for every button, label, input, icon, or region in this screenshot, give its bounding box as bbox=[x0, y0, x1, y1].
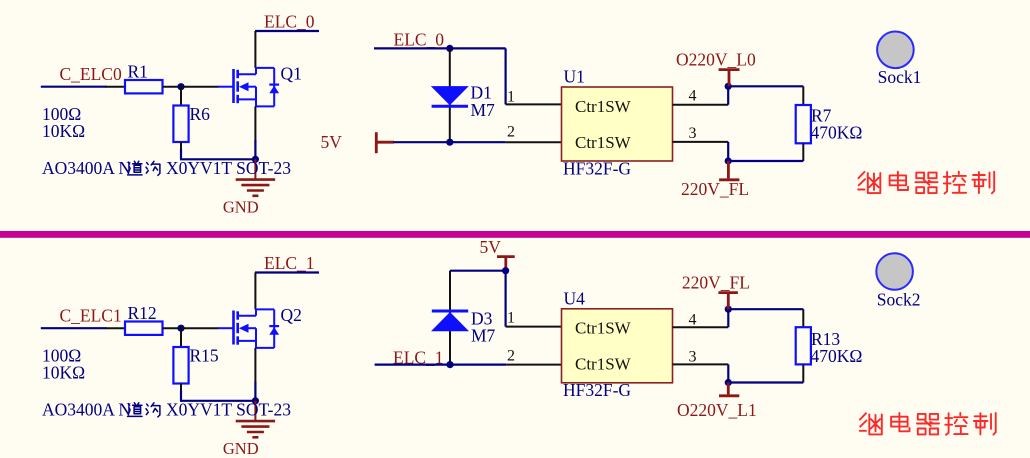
svg-text:5V: 5V bbox=[480, 237, 502, 257]
svg-text:HF32F-G: HF32F-G bbox=[563, 158, 631, 178]
junction source node bbox=[252, 156, 259, 163]
pin number 1 bbox=[507, 310, 515, 327]
pin R13.1 bbox=[802, 309, 804, 327]
wire source net bbox=[180, 391, 182, 401]
svg-text:Ctr1SW: Ctr1SW bbox=[575, 355, 632, 374]
diode D3 bbox=[431, 308, 496, 345]
resistor R12 bbox=[125, 303, 163, 335]
svg-text:4: 4 bbox=[689, 88, 697, 105]
svg-text:O220V_L1: O220V_L1 bbox=[677, 400, 757, 420]
diode D1 bbox=[431, 83, 495, 120]
net label ELC_0 bbox=[264, 12, 315, 32]
wire pin4 to R13 top bbox=[727, 309, 729, 327]
pin number 2 bbox=[507, 348, 515, 365]
wire ELC_1 to pin2 bbox=[375, 364, 507, 366]
power port 220V_FL bbox=[681, 161, 749, 199]
svg-text:Sock2: Sock2 bbox=[877, 289, 921, 309]
pin U4.4 bbox=[673, 326, 729, 328]
label Q1 bbox=[281, 64, 302, 84]
pin U1.4 bbox=[673, 104, 729, 106]
junction gate node bbox=[177, 325, 184, 332]
power port 220V_FL (bottom) bbox=[682, 272, 750, 309]
pin number 3 bbox=[689, 348, 697, 365]
svg-text:220V_FL: 220V_FL bbox=[681, 179, 749, 199]
svg-text:2: 2 bbox=[507, 348, 515, 365]
wire net ELC_1 bbox=[255, 271, 319, 273]
resistor R15 bbox=[173, 346, 219, 384]
pin U4.1 bbox=[506, 326, 562, 328]
pin R6.1 bbox=[180, 87, 182, 106]
note text AO3400A N-channel (CJK drawn) bbox=[42, 158, 291, 178]
junction D1 cathode bbox=[446, 139, 453, 146]
wire 5V to D3 bbox=[450, 270, 506, 272]
svg-text:Q1: Q1 bbox=[281, 64, 302, 84]
svg-text:Q2: Q2 bbox=[281, 305, 302, 325]
pin gate Q1 bbox=[181, 86, 219, 88]
svg-text:ELC_0: ELC_0 bbox=[264, 12, 315, 32]
svg-text:GND: GND bbox=[223, 197, 259, 216]
svg-text:AO3400A N: AO3400A N bbox=[42, 158, 131, 178]
svg-text:R6: R6 bbox=[190, 104, 211, 124]
svg-text:X0YV1T SOT-23: X0YV1T SOT-23 bbox=[166, 400, 291, 420]
svg-text:3: 3 bbox=[689, 348, 697, 365]
junction 5V corner bbox=[502, 267, 509, 274]
separator bar bbox=[0, 231, 1030, 238]
svg-text:ELC_1: ELC_1 bbox=[264, 253, 315, 273]
socket Sock1 bbox=[877, 32, 921, 88]
pin number 2 bbox=[507, 124, 515, 141]
wire R13 bottom to pin3 bbox=[728, 381, 803, 383]
pin R12.1 bbox=[106, 327, 126, 329]
svg-text:R1: R1 bbox=[128, 62, 148, 82]
relay U4 bbox=[562, 288, 673, 400]
pin number 1 bbox=[507, 88, 515, 105]
ground bbox=[223, 401, 275, 458]
pin R7.2 bbox=[802, 143, 804, 161]
wire net ELC_0 bbox=[255, 30, 319, 32]
pin R12.2 bbox=[163, 327, 182, 329]
resistor R7 bbox=[796, 105, 863, 143]
pin R15.2 bbox=[180, 384, 182, 392]
pin R6.2 bbox=[180, 142, 182, 150]
pin number 4 bbox=[689, 312, 697, 329]
pin number 4 bbox=[689, 88, 697, 105]
svg-text:X0YV1T SOT-23: X0YV1T SOT-23 bbox=[166, 158, 291, 178]
resistor R6 bbox=[173, 104, 210, 142]
resistor R1 bbox=[125, 62, 163, 94]
pin R7.1 bbox=[802, 86, 804, 105]
value text 100ohm bbox=[42, 346, 81, 366]
title text 继电器控制 (drawn strokes) bbox=[858, 172, 994, 194]
transistor Q2 bbox=[218, 309, 279, 348]
svg-text:470KΩ: 470KΩ bbox=[811, 123, 863, 143]
wire net C_ELC1 bbox=[41, 327, 107, 329]
svg-text:GND: GND bbox=[223, 439, 259, 458]
label Q2 bbox=[281, 305, 302, 325]
pin R15.1 bbox=[180, 328, 182, 347]
wire source to gnd node bbox=[254, 140, 256, 159]
net label C_ELC1 bbox=[60, 306, 122, 326]
pin U4.3 bbox=[673, 363, 729, 365]
svg-text:U1: U1 bbox=[564, 67, 585, 87]
junction D3 anode bbox=[446, 361, 453, 368]
svg-text:Sock1: Sock1 bbox=[878, 67, 922, 87]
socket Sock2 bbox=[876, 253, 920, 309]
pin U1.3 bbox=[673, 141, 729, 143]
svg-text:470KΩ: 470KΩ bbox=[811, 346, 863, 366]
svg-text:ELC_0: ELC_0 bbox=[394, 29, 445, 49]
svg-text:C_ELC0: C_ELC0 bbox=[60, 64, 122, 84]
svg-text:1: 1 bbox=[507, 310, 515, 327]
svg-text:10KΩ: 10KΩ bbox=[42, 363, 85, 383]
net label ELC_1 (relay side) bbox=[393, 347, 444, 367]
junction O220V_L0 bbox=[725, 83, 732, 90]
resistor R13 bbox=[796, 327, 863, 366]
svg-text:O220V_L0: O220V_L0 bbox=[676, 49, 756, 69]
junction 220V_FL bottom bbox=[725, 306, 732, 313]
pin gate Q2 bbox=[181, 327, 219, 329]
junction 220V_FL bbox=[725, 157, 732, 164]
wire source net bbox=[180, 149, 182, 159]
pin drain Q2 bbox=[254, 273, 256, 310]
pin U1.1 bbox=[506, 103, 562, 105]
svg-text:R15: R15 bbox=[190, 346, 219, 366]
pin U1.2 bbox=[505, 141, 561, 143]
relay U1 bbox=[562, 67, 673, 179]
svg-text:M7: M7 bbox=[471, 100, 496, 120]
wire net C_ELC0 bbox=[41, 86, 107, 88]
ground bbox=[223, 159, 275, 216]
svg-text:C_ELC1: C_ELC1 bbox=[60, 306, 122, 326]
wire ELC_0 to pin1 corner bbox=[374, 47, 506, 49]
svg-text:R12: R12 bbox=[128, 303, 157, 323]
net label ELC_0 (relay side) bbox=[394, 29, 445, 49]
svg-text:M7: M7 bbox=[471, 326, 496, 346]
power port 5V (bottom) bbox=[480, 237, 515, 271]
svg-text:5V: 5V bbox=[321, 132, 343, 152]
value text 10Kohm bbox=[42, 121, 85, 141]
pin U4.2 bbox=[506, 364, 561, 366]
pins D3 vertical bbox=[449, 271, 451, 365]
power port O220V_L0 bbox=[676, 49, 756, 86]
pin source Q2 bbox=[254, 348, 256, 383]
power port 5V bbox=[321, 132, 395, 153]
wire pin4 to R7 top bbox=[727, 86, 729, 104]
svg-text:4: 4 bbox=[689, 312, 697, 329]
transistor Q1 bbox=[218, 68, 279, 107]
wire R7 bottom to pin3 bbox=[728, 160, 803, 162]
svg-text:220V_FL: 220V_FL bbox=[682, 272, 750, 292]
junction D1 anode bbox=[446, 45, 453, 52]
title text 继电器控制 (drawn strokes) bbox=[860, 413, 996, 435]
svg-text:10KΩ: 10KΩ bbox=[42, 121, 85, 141]
pin source Q1 bbox=[254, 106, 256, 141]
value text 100ohm bbox=[42, 104, 81, 124]
svg-text:3: 3 bbox=[689, 125, 697, 142]
net label ELC_1 bbox=[264, 253, 315, 273]
wire source to gnd node bbox=[254, 382, 256, 401]
svg-text:HF32F-G: HF32F-G bbox=[563, 380, 631, 400]
svg-text:Ctr1SW: Ctr1SW bbox=[575, 133, 632, 152]
pins D1 vertical bbox=[449, 48, 451, 142]
wire 5V corner to pin1 bbox=[505, 271, 507, 327]
wire 5V to pin2 bbox=[394, 141, 506, 143]
pin R13.2 bbox=[802, 364, 804, 382]
svg-text:Ctr1SW: Ctr1SW bbox=[575, 319, 632, 338]
pin R1.2 bbox=[163, 86, 182, 88]
junction source node bbox=[252, 397, 259, 404]
pin number 3 bbox=[689, 125, 697, 142]
net label C_ELC0 bbox=[60, 64, 122, 84]
pin R1.1 bbox=[106, 86, 126, 88]
power port O220V_L1 bbox=[677, 383, 757, 420]
svg-text:2: 2 bbox=[507, 124, 515, 141]
pin drain Q1 bbox=[254, 31, 256, 68]
svg-text:U4: U4 bbox=[564, 288, 586, 308]
note text AO3400A N-channel (CJK drawn) bbox=[42, 400, 291, 420]
svg-text:1: 1 bbox=[507, 88, 515, 105]
svg-text:Ctr1SW: Ctr1SW bbox=[575, 97, 632, 116]
svg-text:AO3400A N: AO3400A N bbox=[42, 400, 131, 420]
junction gate node bbox=[177, 83, 184, 90]
value text 10Kohm bbox=[42, 363, 85, 383]
junction O220V_L1 bbox=[725, 379, 732, 386]
